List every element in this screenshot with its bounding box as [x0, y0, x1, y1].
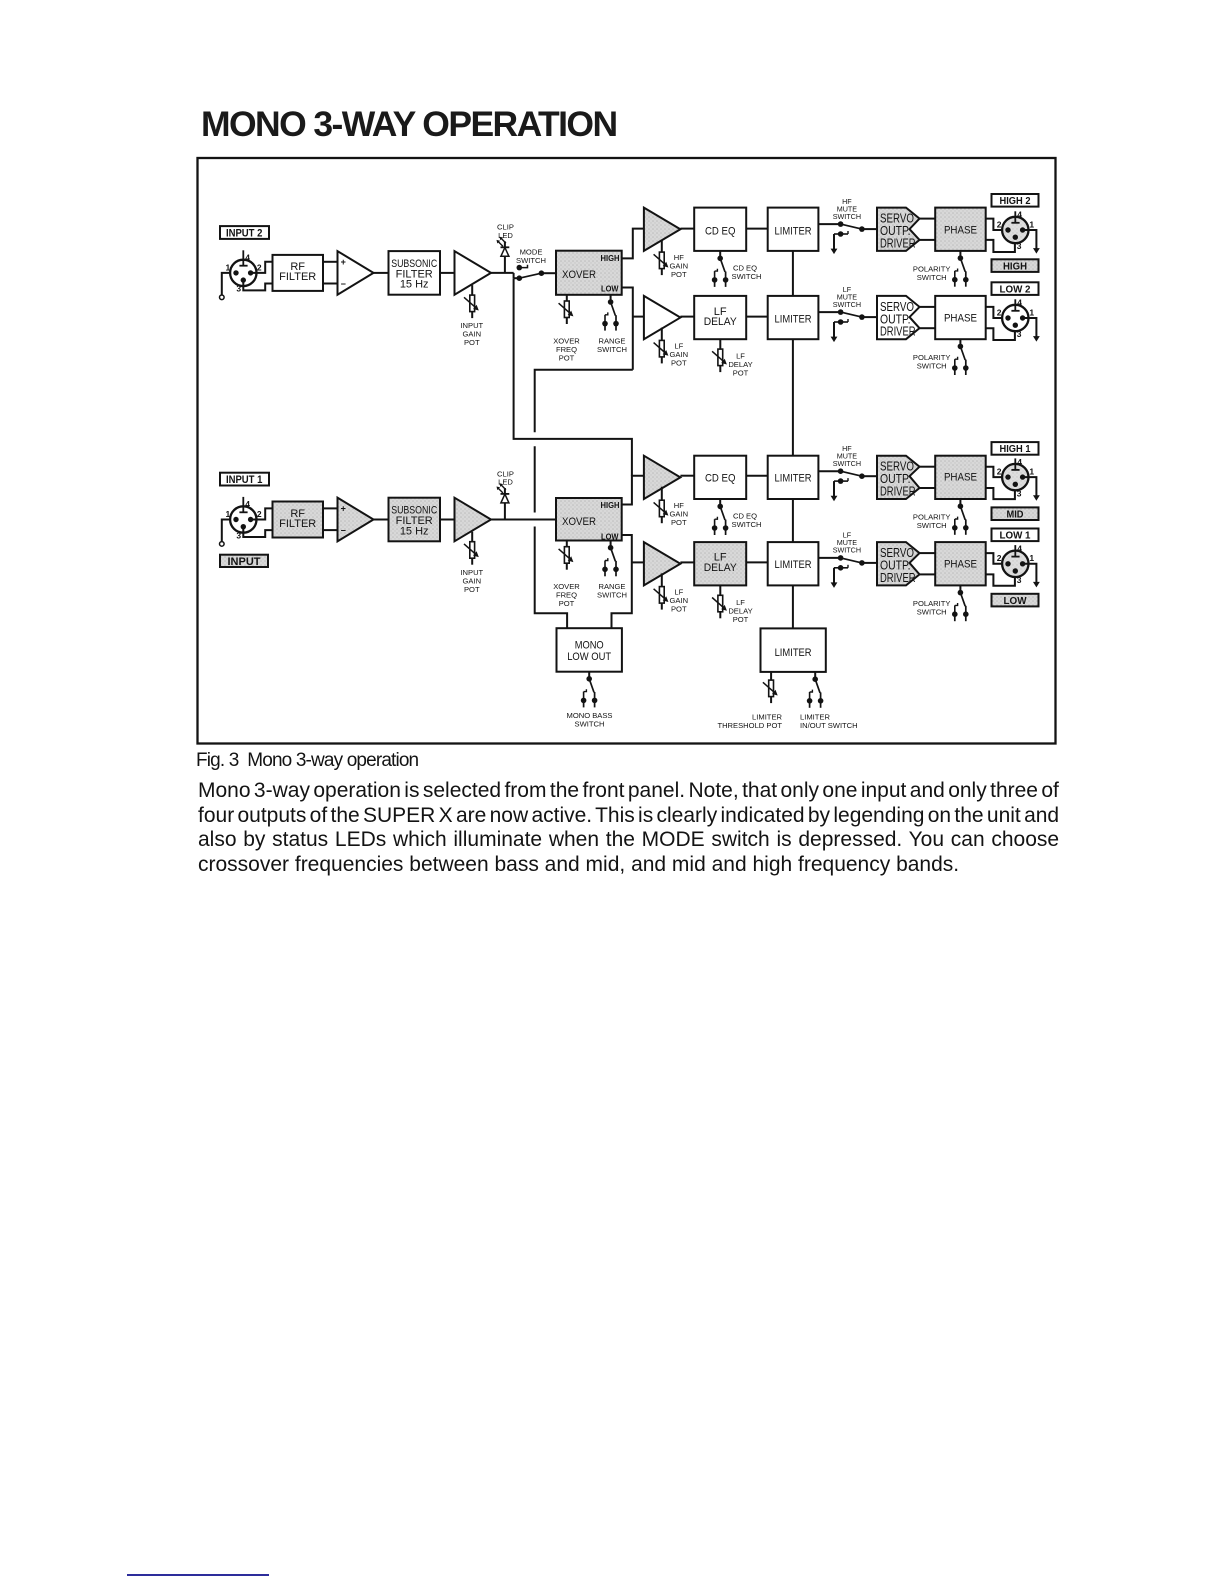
- wire phase to XLR pin3 row2: [986, 325, 1015, 340]
- input gain pot (INPUT 1): [460, 532, 483, 594]
- XLR input connector INPUT 2: [226, 250, 262, 293]
- input gain amp (INPUT 2): [455, 251, 492, 295]
- limiter link bus: [792, 251, 794, 629]
- svg-text:1: 1: [226, 509, 231, 519]
- svg-text:POT: POT: [671, 270, 687, 279]
- svg-text:−: −: [341, 279, 346, 289]
- wire XLR pin1 to ground row3: [1023, 477, 1040, 501]
- wire amp to CD EQ row1: [680, 228, 694, 230]
- figure caption: [196, 751, 418, 771]
- svg-text:DRIVER: DRIVER: [880, 236, 916, 250]
- wire mute switch to servo row3: [862, 475, 877, 477]
- wire input terminal: [220, 520, 231, 547]
- svg-text:MID: MID: [1007, 509, 1024, 521]
- XLR output connector HIGH 1: [997, 457, 1035, 499]
- LF DELAY block row2: [694, 296, 746, 339]
- wire servo to phase row1 (lower): [920, 239, 936, 241]
- mono low out block: [557, 628, 622, 672]
- HF mute switch row3: [818, 444, 864, 501]
- wire XLR pin1 to ground row4: [1023, 564, 1040, 588]
- svg-text:SWITCH: SWITCH: [516, 256, 546, 265]
- svg-text:LOW 1: LOW 1: [1000, 530, 1031, 542]
- xover block (channel 2): [556, 251, 622, 295]
- svg-text:15 Hz: 15 Hz: [400, 525, 429, 537]
- wire XLR pin3 to RF filter: [243, 280, 272, 290]
- wire LF DELAY to limiter row2: [746, 316, 768, 318]
- svg-text:1: 1: [1029, 467, 1034, 477]
- svg-text:INPUT 1: INPUT 1: [226, 474, 263, 486]
- svg-text:LOW OUT: LOW OUT: [567, 651, 611, 663]
- input gain amp (INPUT 1): [455, 498, 492, 542]
- CD EQ switch row1: [712, 251, 762, 287]
- wire RF filter to amp (-): [323, 529, 338, 531]
- wire mono bus segment 3: [535, 527, 567, 629]
- MID active label: [992, 507, 1039, 520]
- wire amp to subsonic filter: [374, 272, 389, 274]
- wire phase to XLR pin2 row1: [986, 219, 1008, 230]
- phase block row4: [935, 542, 986, 585]
- wire amp to CD EQ row3: [680, 475, 694, 477]
- svg-text:2: 2: [257, 509, 262, 519]
- svg-text:2: 2: [257, 262, 262, 272]
- svg-text:INPUT 2: INPUT 2: [226, 228, 263, 240]
- servo output driver row3: [877, 456, 920, 499]
- wire amp to LF DELAY row2: [680, 316, 694, 318]
- XLR output connector LOW 2: [997, 298, 1035, 340]
- clip LED (INPUT 1): [497, 469, 514, 519]
- clip LED (INPUT 2): [497, 223, 514, 273]
- svg-text:POT: POT: [671, 605, 687, 614]
- XLR input connector INPUT 1: [226, 497, 262, 540]
- polarity switch row1: [913, 251, 969, 287]
- paragraph line 2: [198, 805, 1059, 826]
- LF DELAY block row4: [694, 542, 746, 585]
- RF filter block (INPUT 2): [273, 255, 324, 291]
- wire input terminal: [220, 273, 231, 300]
- input diff amp (INPUT 1): [338, 498, 374, 542]
- servo output driver row2: [877, 296, 920, 339]
- wire RF filter to amp (+): [323, 507, 338, 509]
- input gain pot (INPUT 2): [460, 285, 483, 347]
- wire servo to phase row2 (upper): [920, 306, 936, 308]
- svg-text:2: 2: [997, 219, 1002, 229]
- svg-text:POT: POT: [559, 354, 575, 363]
- svg-text:CD EQ: CD EQ: [705, 473, 736, 485]
- wire XLR pin1 to ground row2: [1023, 318, 1040, 342]
- svg-text:FILTER: FILTER: [279, 518, 316, 530]
- wire servo to phase row3 (lower): [920, 487, 936, 489]
- limiter block row3: [768, 456, 819, 499]
- LF mute switch row4: [818, 531, 864, 588]
- phase block row2: [935, 296, 986, 339]
- page title: [201, 107, 617, 142]
- RF filter block (INPUT 1): [273, 502, 324, 538]
- wire xover1 low to mono bus: [535, 370, 633, 433]
- LF gain pot row2: [654, 328, 688, 368]
- wire subsonic filter to gain amp: [440, 272, 455, 274]
- wire phase to XLR pin3 row3: [986, 484, 1015, 499]
- svg-text:POT: POT: [671, 358, 687, 367]
- band amp row3 (HIGH 1): [644, 456, 681, 499]
- wire amp to LF DELAY row4: [680, 561, 694, 563]
- svg-text:2: 2: [997, 307, 1002, 317]
- wire mute switch to servo row2: [862, 316, 877, 318]
- svg-text:HIGH: HIGH: [601, 501, 620, 510]
- band amp row1 (HIGH 2): [644, 208, 681, 251]
- LOW 1 label: [992, 529, 1039, 542]
- svg-text:SWITCH: SWITCH: [732, 520, 762, 529]
- CD EQ block row1: [694, 208, 746, 251]
- svg-text:1: 1: [1029, 553, 1034, 563]
- svg-text:LIMITER: LIMITER: [775, 647, 812, 659]
- svg-text:4: 4: [245, 499, 250, 509]
- wire servo to phase row1 (upper): [920, 218, 936, 220]
- svg-text:3: 3: [1017, 575, 1022, 585]
- svg-text:3: 3: [236, 284, 241, 294]
- HF mute switch row1: [818, 197, 864, 254]
- mono bass switch: [567, 672, 613, 729]
- wire subsonic filter to gain amp: [440, 519, 455, 521]
- wire mono bus segment 2: [534, 446, 536, 512]
- svg-text:DRIVER: DRIVER: [880, 485, 916, 499]
- svg-text:2: 2: [997, 467, 1002, 477]
- limiter in/out switch: [800, 672, 858, 730]
- subsonic filter block (INPUT 2): [389, 251, 441, 295]
- wire XLR pin2 to RF filter: [251, 508, 273, 519]
- range switch (channel 1): [597, 541, 627, 600]
- svg-text:3: 3: [1017, 241, 1022, 251]
- band amp row2 (LOW 2): [644, 296, 681, 339]
- svg-text:LIMITER: LIMITER: [775, 559, 812, 571]
- HF gain pot row1: [654, 240, 688, 280]
- diagram frame: [198, 158, 1056, 744]
- svg-text:LED: LED: [498, 478, 513, 487]
- svg-text:SWITCH: SWITCH: [597, 591, 627, 600]
- svg-text:PHASE: PHASE: [944, 472, 977, 484]
- svg-text:LOW 2: LOW 2: [1000, 283, 1031, 295]
- svg-text:DELAY: DELAY: [704, 316, 738, 328]
- wire amp to subsonic filter: [374, 519, 389, 521]
- svg-text:1: 1: [1029, 219, 1034, 229]
- svg-text:SWITCH: SWITCH: [732, 272, 762, 281]
- svg-text:3: 3: [236, 530, 241, 540]
- svg-text:POT: POT: [733, 615, 749, 624]
- servo output driver row4: [877, 542, 920, 585]
- wire xover1 low out: [622, 288, 633, 370]
- svg-text:MONO: MONO: [575, 640, 604, 652]
- svg-text:4: 4: [1017, 544, 1022, 554]
- svg-text:SWITCH: SWITCH: [917, 521, 947, 530]
- wire xover1 high out: [622, 229, 644, 259]
- wire gain amp to mode switch: [491, 272, 514, 274]
- svg-text:1: 1: [1029, 307, 1034, 317]
- servo output driver row1: [877, 208, 920, 251]
- XLR output connector LOW 1: [997, 544, 1035, 586]
- CD EQ block row3: [694, 456, 746, 499]
- xover block (channel 1): [556, 498, 622, 541]
- svg-text:1: 1: [226, 262, 231, 272]
- wire phase to XLR pin3 row4: [986, 571, 1015, 586]
- svg-text:SWITCH: SWITCH: [833, 546, 861, 555]
- wire RF filter to amp (+): [323, 261, 338, 263]
- subsonic filter block (INPUT 1): [389, 498, 441, 542]
- limiter threshold pot: [717, 672, 782, 730]
- svg-text:+: +: [341, 257, 346, 267]
- svg-text:DRIVER: DRIVER: [880, 571, 916, 585]
- limiter block row2: [768, 296, 819, 339]
- svg-text:LIMITER: LIMITER: [775, 313, 812, 325]
- svg-text:HIGH 1: HIGH 1: [1000, 443, 1031, 455]
- master limiter block: [761, 628, 826, 672]
- wire gain amp to xover2: [491, 519, 556, 521]
- INPUT 1 label: [220, 473, 269, 487]
- svg-text:SWITCH: SWITCH: [917, 273, 947, 282]
- wire servo to phase row2 (lower): [920, 327, 936, 329]
- wire LF DELAY to limiter row4: [746, 561, 768, 563]
- svg-text:HIGH: HIGH: [601, 254, 620, 263]
- svg-text:PHASE: PHASE: [944, 558, 977, 570]
- svg-text:SWITCH: SWITCH: [917, 608, 947, 617]
- svg-text:4: 4: [1017, 298, 1022, 308]
- wire low branch to LF amp: [633, 316, 644, 318]
- wire mute switch to servo row4: [862, 562, 877, 564]
- HIGH active label: [992, 259, 1039, 272]
- wire servo to phase row4 (upper): [920, 552, 936, 554]
- HF gain pot row3: [654, 487, 688, 528]
- wire xover2 high out: [622, 476, 644, 505]
- svg-text:15 Hz: 15 Hz: [400, 279, 429, 291]
- LOW active label: [992, 594, 1039, 607]
- xover freq pot (channel 1): [553, 541, 580, 609]
- band amp row4 (LOW 1): [644, 542, 681, 585]
- CD EQ switch row3: [712, 499, 762, 535]
- wire phase to XLR pin2 row3: [986, 467, 1008, 477]
- xover freq pot (channel 2): [553, 295, 580, 363]
- svg-text:−: −: [341, 526, 346, 536]
- mode switch: [514, 247, 546, 281]
- svg-text:POT: POT: [733, 369, 749, 378]
- paragraph line 4: [198, 854, 959, 875]
- wire CD EQ to limiter row3: [746, 475, 768, 477]
- input diff amp (INPUT 2): [338, 251, 374, 295]
- svg-text:PHASE: PHASE: [944, 225, 977, 237]
- svg-text:DELAY: DELAY: [704, 562, 738, 574]
- svg-text:+: +: [341, 504, 346, 514]
- INPUT active label: [220, 555, 268, 568]
- svg-text:POT: POT: [671, 518, 687, 527]
- polarity switch row4: [913, 585, 969, 621]
- wire XLR pin1 to ground row1: [1023, 230, 1040, 254]
- LF gain pot row4: [654, 573, 688, 613]
- svg-text:4: 4: [245, 253, 250, 263]
- phase block row1: [935, 208, 986, 251]
- wire XLR pin3 to RF filter: [243, 527, 272, 537]
- wire CD EQ to limiter row1: [746, 228, 768, 230]
- LF mute switch row2: [818, 285, 864, 342]
- svg-text:FILTER: FILTER: [279, 271, 316, 283]
- wire phase to XLR pin2 row2: [986, 307, 1008, 318]
- wire mute switch to servo row1: [862, 228, 877, 230]
- svg-text:CD EQ: CD EQ: [705, 226, 736, 238]
- wire RF filter to amp (-): [323, 283, 338, 285]
- svg-text:SWITCH: SWITCH: [597, 345, 627, 354]
- wire servo to phase row4 (lower): [920, 573, 936, 575]
- wire XLR pin2 to RF filter: [251, 262, 273, 273]
- svg-text:SWITCH: SWITCH: [833, 459, 861, 468]
- wire mode switch to xover: [541, 272, 556, 274]
- INPUT 2 label: [220, 226, 269, 240]
- wire mono link from mode switch down: [514, 278, 632, 476]
- svg-text:POT: POT: [464, 585, 480, 594]
- svg-text:XOVER: XOVER: [562, 516, 596, 528]
- svg-text:LOW: LOW: [1004, 595, 1027, 607]
- phase block row3: [935, 456, 986, 499]
- svg-text:4: 4: [1017, 457, 1022, 467]
- svg-text:PHASE: PHASE: [944, 313, 977, 325]
- svg-text:3: 3: [1017, 488, 1022, 498]
- svg-text:LOW: LOW: [601, 284, 619, 293]
- svg-text:LIMITER: LIMITER: [775, 225, 812, 237]
- footer blue rule: [127, 1574, 269, 1576]
- svg-text:DRIVER: DRIVER: [880, 325, 916, 339]
- LF delay pot row4: [712, 585, 753, 624]
- wire servo to phase row3 (upper): [920, 466, 936, 468]
- wire phase to XLR pin3 row1: [986, 237, 1015, 252]
- svg-text:4: 4: [1017, 210, 1022, 220]
- svg-text:HIGH 2: HIGH 2: [1000, 195, 1031, 207]
- wire low branch to LF amp (channel 1): [632, 561, 644, 563]
- svg-text:SWITCH: SWITCH: [575, 719, 605, 728]
- range switch (channel 2): [597, 295, 627, 354]
- svg-text:POT: POT: [559, 599, 575, 608]
- svg-text:SWITCH: SWITCH: [833, 212, 861, 221]
- limiter block row1: [768, 208, 819, 251]
- LOW 2 label: [992, 282, 1039, 295]
- svg-text:LED: LED: [498, 231, 513, 240]
- svg-text:LIMITER: LIMITER: [775, 473, 812, 485]
- svg-text:SWITCH: SWITCH: [917, 361, 947, 370]
- svg-text:HIGH: HIGH: [1003, 260, 1027, 272]
- paragraph line 1: [198, 780, 1059, 801]
- polarity switch row3: [913, 499, 969, 535]
- limiter block row4: [768, 542, 819, 585]
- wire phase to XLR pin2 row4: [986, 553, 1008, 564]
- svg-text:SWITCH: SWITCH: [833, 300, 861, 309]
- svg-text:LOW: LOW: [601, 532, 619, 541]
- svg-text:THRESHOLD POT: THRESHOLD POT: [717, 721, 782, 730]
- HIGH 2 label: [992, 194, 1039, 207]
- LF delay pot row2: [712, 339, 753, 378]
- svg-text:3: 3: [1017, 329, 1022, 339]
- paragraph line 3: [198, 829, 1059, 850]
- svg-text:XOVER: XOVER: [562, 269, 596, 281]
- wire xover2 low out: [612, 535, 632, 628]
- polarity switch row2: [913, 339, 969, 375]
- svg-text:2: 2: [997, 553, 1002, 563]
- XLR output connector HIGH 2: [997, 210, 1035, 252]
- HIGH 1 label: [992, 442, 1039, 455]
- svg-text:INPUT: INPUT: [228, 556, 261, 568]
- svg-text:POT: POT: [464, 338, 480, 347]
- svg-text:IN/OUT SWITCH: IN/OUT SWITCH: [800, 721, 858, 730]
